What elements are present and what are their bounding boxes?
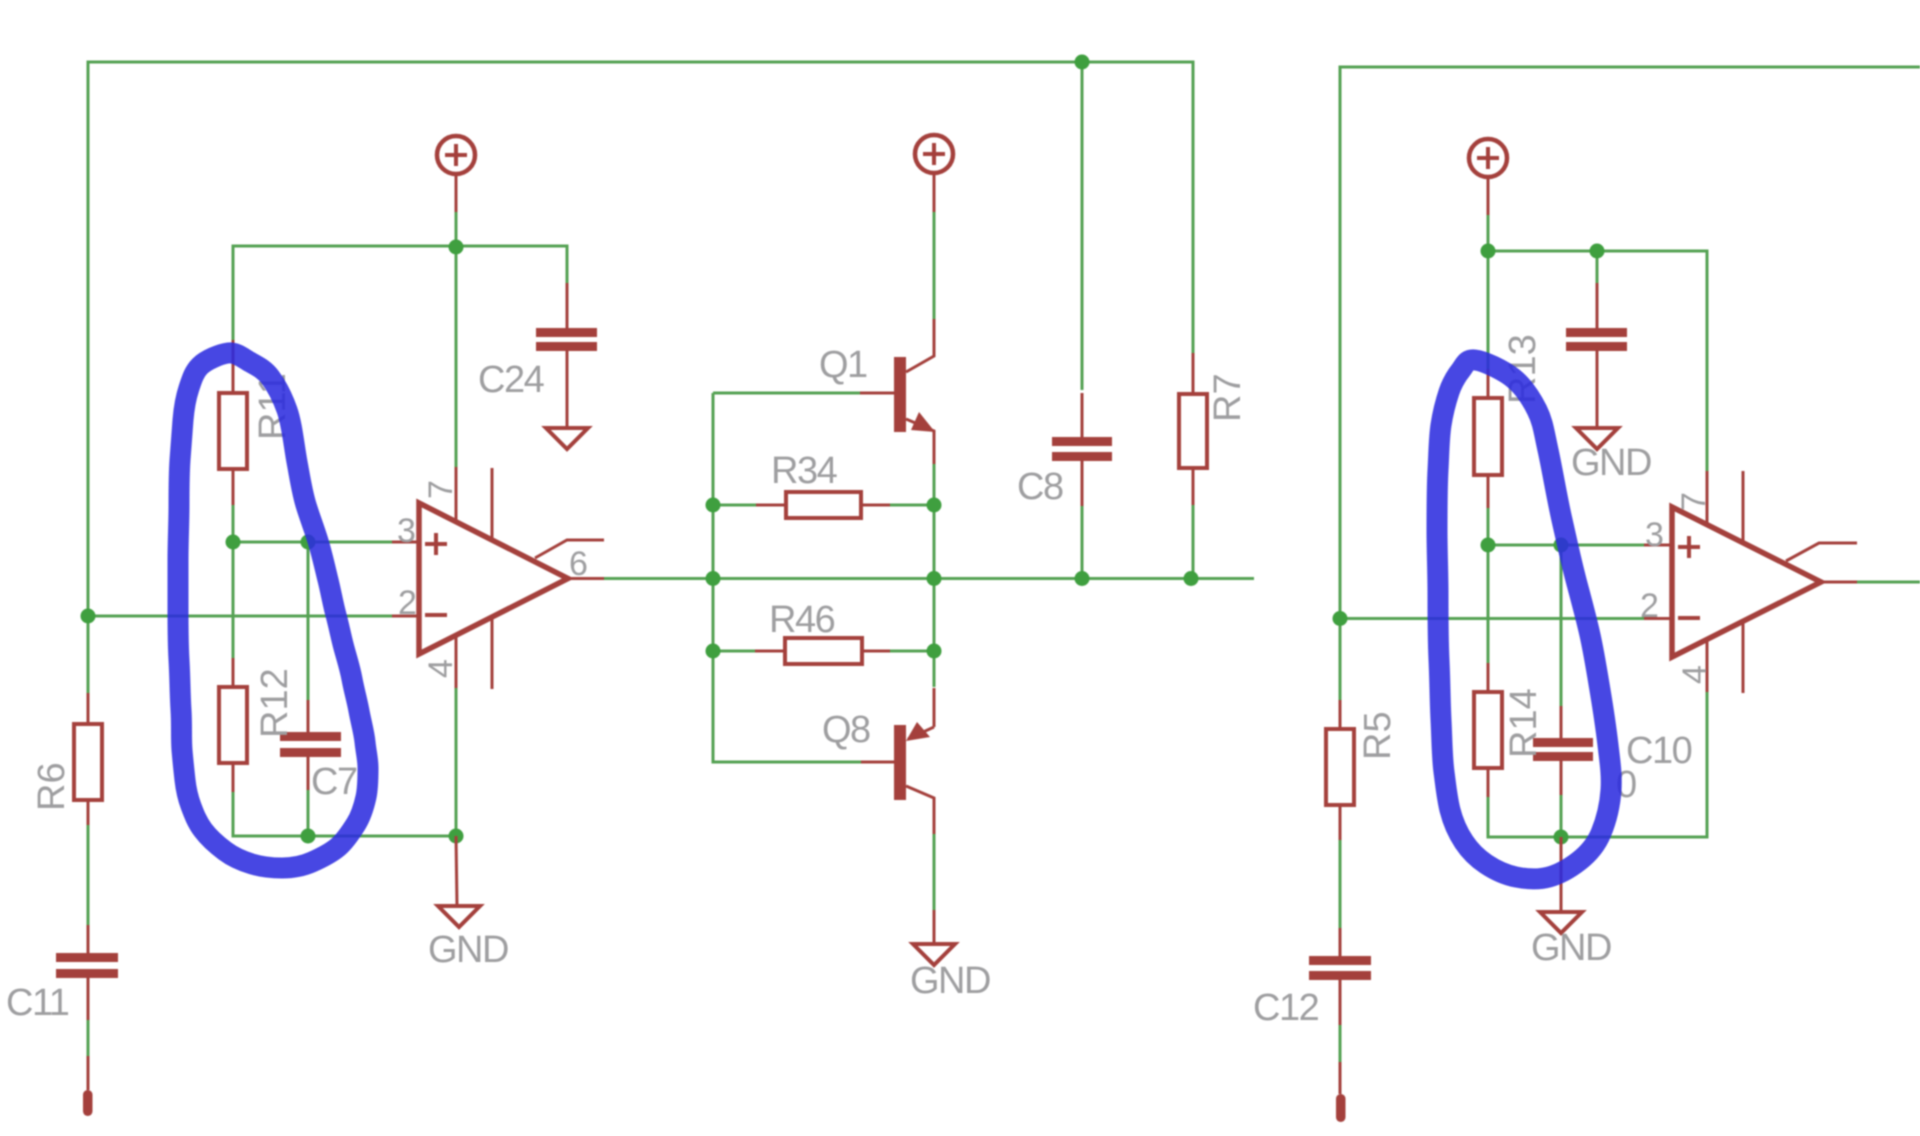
node pin3 right a (1481, 538, 1496, 553)
wire stub end left (83, 1090, 93, 1116)
svg-text:C8: C8 (1017, 466, 1063, 508)
svg-text:2: 2 (1640, 587, 1659, 625)
node R34 left (706, 498, 721, 513)
svg-text:R34: R34 (771, 450, 838, 492)
wire mid left column (713, 393, 861, 762)
wire Q1 collector supply (933, 212, 936, 324)
svg-text:R46: R46 (769, 599, 835, 641)
node pin3 left a (226, 535, 241, 550)
ground under op-amp U1 (438, 836, 480, 927)
wire pin3 net right (1488, 508, 1644, 545)
node gnd rail C10 (1554, 830, 1569, 845)
wire C8 bottom (1081, 506, 1084, 579)
transistor Q1 (860, 319, 935, 464)
node gnd rail pin4 (449, 829, 464, 844)
wire mid column Q1-Q8 (933, 505, 936, 651)
svg-text:7: 7 (1675, 492, 1713, 511)
op-amp U1 (392, 467, 604, 689)
wire R46 left (713, 650, 755, 653)
resistor R7 (1179, 353, 1207, 505)
wire stub end right (1336, 1094, 1346, 1122)
wire top rail left (88, 62, 1193, 693)
wire R34 right (890, 504, 934, 507)
capacitor C12 (1309, 928, 1371, 1094)
power symbol P1 (437, 136, 475, 212)
wire pin2 net left (88, 615, 392, 618)
node cap right tap (1590, 244, 1605, 259)
svg-text:7: 7 (422, 480, 460, 499)
wire C7 bottom (307, 790, 310, 836)
wire pin3 net left (233, 505, 392, 542)
svg-text:GND: GND (428, 929, 508, 971)
transistor Q8 (861, 688, 934, 834)
wire right res column (1487, 251, 1490, 369)
power symbol P2 (915, 135, 953, 212)
wire Q1 base (713, 392, 862, 395)
svg-text:4: 4 (422, 659, 460, 678)
svg-text:GND: GND (1531, 927, 1611, 969)
svg-text:GND: GND (910, 960, 990, 1002)
wire C10 bottom (1560, 795, 1563, 837)
svg-text:C24: C24 (478, 359, 545, 401)
svg-text:R5: R5 (1357, 711, 1399, 760)
wire gnd rail right (1488, 692, 1707, 837)
capacitor C10 (1533, 706, 1593, 795)
node pin3 right b (1554, 538, 1569, 553)
svg-text:R7: R7 (1207, 373, 1249, 422)
capacitor C11 (56, 925, 118, 1090)
wire R5 link (1339, 840, 1342, 928)
ground under C10 (1540, 837, 1582, 933)
svg-text:6: 6 (569, 545, 588, 583)
node power left (449, 240, 464, 255)
capacitor C8 (1052, 393, 1112, 506)
svg-text:C11: C11 (6, 982, 69, 1024)
wire cap right drop (1596, 251, 1599, 283)
svg-text:2: 2 (398, 584, 417, 622)
ground under Q8 (913, 910, 955, 965)
capacitor C24 (536, 283, 597, 428)
power symbol P3 (1469, 139, 1507, 215)
svg-text:R12: R12 (254, 668, 296, 738)
resistor R13 (1474, 369, 1502, 508)
node top C8 tap (1075, 55, 1090, 70)
wire Q8 emitter up (933, 651, 936, 687)
wire R12 column (232, 542, 235, 658)
capacitor C9 (1566, 283, 1627, 428)
resistor R6 (74, 693, 102, 825)
svg-text:C10: C10 (1626, 730, 1692, 772)
node out R7 (1184, 571, 1199, 586)
wire power left horiz (233, 246, 567, 340)
resistor R11 (219, 340, 247, 505)
wire Q8 collector down (933, 834, 936, 910)
node R46 left (706, 644, 721, 659)
wire top rail right (1340, 67, 1920, 700)
svg-text:Q1: Q1 (819, 344, 867, 386)
wire R14 column (1487, 545, 1490, 663)
node power right (1481, 244, 1496, 259)
node R46 right (927, 644, 942, 659)
wire R7 bottom (1192, 505, 1195, 579)
node out Q col (927, 571, 942, 586)
node rail right pin2 (1333, 611, 1348, 626)
wire C7 column (307, 542, 310, 700)
wire power right horiz (1488, 215, 1707, 471)
svg-text:R14: R14 (1503, 688, 1545, 758)
wire R46 right (890, 650, 934, 653)
svg-text:C12: C12 (1253, 987, 1319, 1029)
wire Q1 emitter down (933, 464, 936, 505)
node R34 right (927, 498, 942, 513)
wire gnd rail left (233, 688, 456, 836)
op-amp U2 (1644, 471, 1857, 693)
svg-text:3: 3 (397, 512, 416, 550)
svg-text:4: 4 (1676, 665, 1714, 684)
resistor R12 (219, 658, 247, 792)
wire pin2 net right (1340, 617, 1644, 620)
ground under C9 (1576, 428, 1618, 449)
node rail left pin2 (81, 609, 96, 624)
svg-text:R6: R6 (31, 762, 73, 811)
node out C8 (1075, 571, 1090, 586)
node gnd rail C7 (301, 829, 316, 844)
svg-text:3: 3 (1645, 516, 1664, 554)
resistor R14 (1474, 663, 1502, 797)
wire C8 drop from top (1081, 62, 1084, 390)
wire pin7 supply left (455, 212, 458, 467)
wire C10 column (1560, 545, 1563, 706)
node out left col (706, 571, 721, 586)
capacitor C7 (280, 700, 341, 790)
wire R34 left (713, 504, 756, 507)
svg-text:C7: C7 (311, 761, 357, 803)
resistor R46 (755, 638, 890, 664)
svg-text:GND: GND (1571, 442, 1651, 484)
wire opamp1 out net (604, 577, 1254, 580)
svg-text:Q8: Q8 (822, 709, 870, 751)
wire opamp2 out net (1857, 581, 1920, 584)
annotation loop left (178, 353, 368, 868)
node pin3 left b (301, 535, 316, 550)
resistor R34 (756, 492, 890, 518)
wire R6 link (87, 825, 90, 925)
ground under C24 (546, 428, 588, 449)
annotation loop right (1437, 360, 1611, 879)
resistor R5 (1326, 700, 1354, 840)
